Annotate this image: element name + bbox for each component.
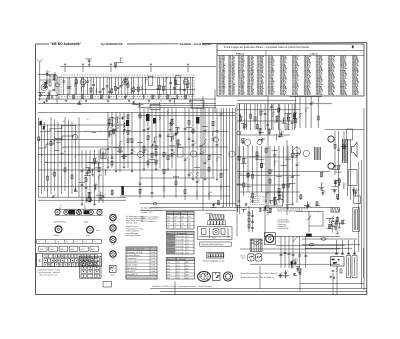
resistor R — [98, 168, 100, 172]
svg-text:235: 235 — [188, 227, 191, 229]
inductor L — [204, 139, 205, 144]
connector pin dot — [60, 264, 61, 265]
wire — [287, 146, 289, 203]
wire — [139, 108, 141, 198]
control knob 1 spoke — [111, 215, 112, 217]
inductor L — [96, 89, 97, 94]
connector view C pin — [227, 279, 228, 280]
resistor R — [212, 122, 214, 126]
knob front right hub — [89, 229, 91, 231]
junction — [309, 211, 310, 212]
extra block pin — [96, 267, 97, 268]
antenna symbol — [37, 59, 42, 68]
svg-text:2,2: 2,2 — [165, 152, 167, 154]
resistor R — [90, 88, 92, 92]
wire — [115, 122, 119, 124]
capacitor C — [39, 94, 42, 95]
svg-text:60.3: 60.3 — [167, 268, 170, 270]
ground — [251, 200, 254, 202]
inductor L — [200, 148, 201, 153]
wire — [150, 288, 367, 290]
table R/C divider — [265, 51, 267, 96]
power connector pin — [338, 259, 340, 261]
wire — [81, 150, 83, 203]
connector pin dot — [58, 256, 59, 257]
control knob 1 spoke — [111, 219, 112, 221]
svg-text:2,2: 2,2 — [80, 100, 82, 102]
wire — [48, 94, 50, 99]
svg-text:28.4: 28.4 — [177, 268, 180, 270]
pushbutton square — [213, 254, 215, 257]
table header club symbol — [351, 45, 354, 49]
svg-text:150: 150 — [85, 131, 87, 133]
plug view pin b — [260, 256, 261, 257]
connector pin box — [44, 259, 47, 263]
control knob 3 spoke — [114, 239, 116, 241]
wire — [152, 144, 154, 146]
inductor L — [123, 154, 124, 159]
border frame left — [35, 44, 37, 295]
extra block cell — [81, 270, 86, 273]
wire — [240, 174, 300, 176]
connector view A pin — [207, 273, 208, 274]
detector block box — [150, 105, 160, 110]
wire — [280, 236, 282, 268]
plug view pin — [250, 259, 251, 260]
capacitor C — [89, 171, 92, 172]
wire — [276, 134, 278, 140]
svg-text:289 470p: 289 470p — [340, 93, 347, 96]
resistor R — [320, 173, 322, 177]
svg-text:2,2: 2,2 — [270, 129, 272, 131]
wire — [293, 275, 297, 277]
vibrator socket box — [264, 233, 275, 245]
wire — [290, 182, 296, 184]
capacitor C — [212, 204, 215, 205]
wire — [123, 112, 125, 166]
connector pin field — [37, 253, 102, 267]
svg-text:48.2: 48.2 — [186, 268, 189, 270]
right small box — [346, 129, 352, 140]
electrolytic bar — [121, 186, 124, 195]
connector pin box — [90, 254, 94, 258]
capacitor C — [280, 133, 283, 134]
inductor L — [124, 123, 125, 128]
driver transformer T6 — [315, 147, 321, 160]
connector square pin — [112, 268, 113, 269]
capacitor C — [334, 165, 337, 166]
wire — [147, 108, 149, 168]
wire — [285, 270, 287, 275]
svg-text:5p: 5p — [51, 77, 53, 79]
connector view C pin — [226, 278, 227, 279]
wire — [56, 141, 61, 143]
connector square pin — [111, 267, 112, 268]
wire — [173, 176, 179, 178]
wire — [338, 227, 341, 229]
capacitor C — [266, 124, 269, 125]
extra block pin — [90, 267, 91, 268]
connector pin box — [48, 259, 50, 263]
inductor L — [287, 114, 288, 119]
wire — [248, 206, 250, 232]
ground — [51, 96, 54, 98]
dial drum — [69, 210, 76, 215]
connector pin box — [94, 263, 97, 267]
wire — [243, 124, 245, 130]
control knob 2 spoke — [111, 229, 112, 231]
resistor R — [287, 184, 289, 188]
capacitor C — [335, 228, 338, 229]
connector header divider — [54, 240, 56, 244]
wire — [89, 150, 91, 203]
ground — [114, 66, 117, 68]
connector pin box — [79, 263, 82, 267]
svg-text:Toleranz ± 15 %: Toleranz ± 15 % — [141, 212, 153, 214]
wire — [200, 108, 202, 178]
wire — [291, 104, 293, 130]
wire — [187, 66, 189, 72]
dial pulley — [89, 210, 94, 215]
resistor R — [175, 181, 177, 185]
wire — [331, 222, 333, 224]
tube envelope — [183, 79, 189, 85]
wire — [63, 77, 65, 94]
dial drum 2 — [84, 210, 90, 214]
pin row boxes — [208, 221, 226, 225]
tableB dark cell — [167, 238, 176, 241]
wire — [124, 95, 126, 99]
wire — [335, 226, 337, 231]
wire — [269, 208, 271, 212]
capacitor C — [171, 154, 174, 155]
wire — [237, 99, 296, 101]
resistor R — [238, 156, 240, 160]
tableB col line — [185, 232, 187, 255]
wire — [320, 172, 324, 174]
wire — [296, 146, 298, 203]
output transformer T7 — [343, 139, 348, 163]
wire — [272, 150, 278, 152]
capacitor C — [99, 91, 102, 92]
tableA hdr fill — [167, 212, 195, 215]
resistor R — [127, 83, 129, 87]
capacitor C — [238, 114, 241, 115]
wire — [245, 186, 251, 188]
wire — [139, 103, 141, 105]
svg-text:UKW: UKW — [70, 249, 74, 251]
relay block hatch — [337, 208, 338, 213]
wire — [133, 77, 135, 94]
svg-text:22k: 22k — [145, 150, 147, 152]
tableB row line — [167, 243, 195, 245]
svg-text:100: 100 — [210, 192, 212, 194]
svg-text:12.4: 12.4 — [177, 262, 180, 264]
inductor L — [107, 127, 108, 132]
plug view pin — [249, 257, 250, 258]
resistor R — [269, 208, 271, 212]
relay feed wire — [296, 211, 323, 213]
junction — [318, 211, 319, 212]
wire — [38, 124, 128, 126]
resistor R — [185, 95, 187, 99]
capacitor C — [298, 255, 301, 256]
wire — [334, 223, 339, 225]
svg-text:UKW: UKW — [60, 249, 64, 251]
input tube inner — [43, 86, 45, 88]
wire — [347, 163, 349, 196]
wire — [326, 218, 334, 220]
svg-text:20.3: 20.3 — [186, 265, 189, 267]
resistor R — [162, 86, 164, 90]
wire — [276, 115, 278, 122]
svg-text:154 5µ: 154 5µ — [280, 93, 285, 96]
tableC row line — [167, 266, 195, 268]
wire — [305, 247, 352, 249]
wire — [239, 104, 241, 214]
wire — [189, 77, 191, 94]
junction — [139, 103, 140, 104]
tube V13 envelope — [213, 137, 218, 142]
resistor R — [268, 129, 270, 133]
extra block cell — [94, 274, 99, 277]
svg-text:Kreis 3 460: Kreis 3 460 — [176, 243, 183, 245]
control knob 2 spoke — [114, 227, 116, 229]
wire — [276, 244, 345, 246]
wire — [38, 196, 126, 198]
connector square pin — [112, 270, 113, 271]
resistor R — [269, 179, 271, 183]
wire — [352, 187, 354, 194]
wire — [210, 207, 217, 209]
ground — [291, 203, 294, 205]
resistor R — [177, 140, 179, 144]
svg-text:T 4: T 4 — [66, 241, 68, 243]
inductor L — [216, 157, 217, 162]
wire — [95, 77, 97, 94]
wire — [300, 283, 364, 285]
power connector pin — [334, 262, 336, 264]
wire — [84, 206, 86, 209]
junction — [295, 260, 296, 261]
svg-text:25µ: 25µ — [123, 116, 125, 118]
connector pin box — [44, 254, 48, 258]
capacitor C — [74, 189, 77, 190]
ground — [320, 187, 323, 189]
wire — [287, 114, 289, 120]
capacitor C — [143, 151, 146, 152]
resistor R — [287, 117, 289, 121]
connector pin dot — [55, 260, 56, 261]
svg-text:10k: 10k — [160, 95, 162, 97]
svg-text:150: 150 — [253, 193, 255, 195]
inductor L — [163, 186, 164, 191]
wire — [38, 154, 222, 156]
wire — [294, 152, 300, 154]
wire — [75, 77, 77, 94]
wire — [256, 146, 258, 196]
inductor L — [296, 152, 297, 157]
capacitor C — [175, 133, 178, 134]
ground — [108, 135, 111, 137]
connector pin box — [89, 259, 93, 263]
inductor L — [212, 130, 213, 135]
control knob 4 spoke — [114, 255, 115, 257]
wire — [138, 115, 235, 117]
svg-text:9 2540: 9 2540 — [151, 268, 156, 270]
wire — [38, 112, 235, 114]
wire — [91, 95, 93, 99]
capacitor C — [243, 126, 246, 127]
svg-text:0,5: 0,5 — [280, 188, 282, 190]
svg-text:10k: 10k — [262, 163, 264, 165]
wire — [238, 146, 240, 200]
wire — [176, 95, 178, 99]
plug view right — [256, 254, 262, 261]
svg-text:2,2: 2,2 — [297, 119, 299, 121]
ground — [44, 86, 47, 88]
tableA col line — [187, 212, 189, 230]
capacitor C — [296, 164, 299, 165]
svg-text:6,8: 6,8 — [281, 130, 283, 132]
control knob 2 hub — [112, 227, 115, 230]
inductor L — [220, 185, 221, 190]
switch diagonal — [293, 236, 299, 242]
svg-text:2,2: 2,2 — [83, 169, 85, 171]
capacitor C — [169, 83, 172, 84]
svg-text:0,1: 0,1 — [309, 203, 311, 205]
connector pin dot — [49, 264, 50, 265]
resistor R — [147, 161, 149, 165]
bracket frame — [198, 227, 233, 240]
svg-text:139: 139 — [188, 224, 191, 226]
svg-text:1M: 1M — [173, 154, 175, 156]
resistor R — [338, 179, 340, 183]
wire — [247, 146, 249, 192]
capacitor C — [251, 221, 254, 222]
pushbutton square — [221, 254, 223, 257]
connector view A pin — [207, 279, 208, 280]
svg-text:0,1: 0,1 — [272, 200, 274, 202]
wire — [94, 185, 96, 188]
trimmer disc C1 — [55, 83, 59, 87]
svg-text:470: 470 — [186, 158, 188, 160]
connector view A pin — [204, 277, 205, 278]
output tube V16 — [293, 148, 301, 156]
resistor R — [163, 170, 165, 174]
NF module box — [266, 192, 283, 206]
dial pulley hub — [65, 211, 67, 213]
wire — [38, 199, 126, 201]
svg-text:Kreis 6 460: Kreis 6 460 — [176, 252, 183, 254]
power connector pin — [333, 259, 335, 261]
relay block hatch — [332, 208, 333, 213]
transformer lam line — [257, 239, 259, 251]
wire — [237, 184, 290, 186]
svg-text:T 1: T 1 — [38, 241, 40, 243]
wire — [241, 208, 246, 210]
right small box 2 — [354, 196, 361, 204]
inductor L — [119, 141, 120, 146]
resistor R — [248, 224, 250, 228]
parts row line — [126, 262, 157, 264]
svg-text:29: 29 — [181, 227, 183, 229]
tableA row line — [167, 214, 195, 216]
terminal cap — [335, 253, 337, 255]
wire — [38, 117, 40, 197]
resistor R — [111, 89, 113, 93]
inductor L — [171, 136, 172, 141]
ground — [108, 124, 111, 126]
voltage table A — [167, 212, 195, 230]
wire — [208, 108, 210, 200]
capacitor C — [251, 215, 254, 216]
svg-text:L5: L5 — [187, 249, 189, 251]
wire — [81, 95, 83, 99]
wire — [102, 77, 104, 94]
wire — [240, 191, 300, 193]
tableB dark cell — [167, 241, 176, 244]
connector pin box — [68, 254, 70, 258]
wire — [350, 139, 352, 200]
extra block cell — [94, 262, 99, 265]
wire — [87, 77, 89, 94]
inductor L — [261, 138, 262, 143]
svg-text:T 7: T 7 — [94, 241, 96, 243]
wire — [290, 96, 322, 98]
svg-text:100: 100 — [244, 158, 246, 160]
wire — [157, 77, 159, 94]
wire — [43, 85, 47, 87]
wire — [237, 206, 239, 212]
extra block cell — [81, 262, 86, 265]
wire — [53, 74, 55, 80]
resistor R — [38, 137, 40, 141]
wire — [243, 104, 245, 130]
transformer lam line — [251, 239, 253, 251]
wire — [55, 215, 103, 217]
knob front right — [87, 226, 94, 233]
wire — [284, 104, 286, 130]
connector view B pin — [215, 273, 216, 274]
resistor R — [124, 79, 126, 83]
wire — [331, 227, 333, 233]
parts header fill — [126, 247, 157, 250]
output tube V18 — [328, 136, 334, 142]
connector label box — [80, 246, 89, 251]
tall right rect — [353, 208, 360, 232]
connector pin dot — [83, 260, 84, 261]
connector label box — [59, 246, 68, 251]
capacitor C — [85, 187, 88, 188]
wire — [151, 108, 153, 198]
resistor R — [261, 164, 263, 168]
ground — [45, 86, 48, 88]
wire — [174, 282, 176, 295]
control knob 4 spoke — [111, 251, 112, 253]
wire — [144, 77, 146, 94]
ground — [128, 100, 131, 102]
inductor L — [116, 94, 117, 99]
wire — [74, 77, 76, 94]
tableB row line — [167, 237, 195, 239]
connector pin dot — [86, 260, 87, 261]
wire — [120, 195, 230, 197]
wire — [158, 95, 160, 99]
dial lamp circle — [86, 197, 90, 201]
wire — [177, 139, 179, 144]
capacitor C — [284, 252, 287, 253]
